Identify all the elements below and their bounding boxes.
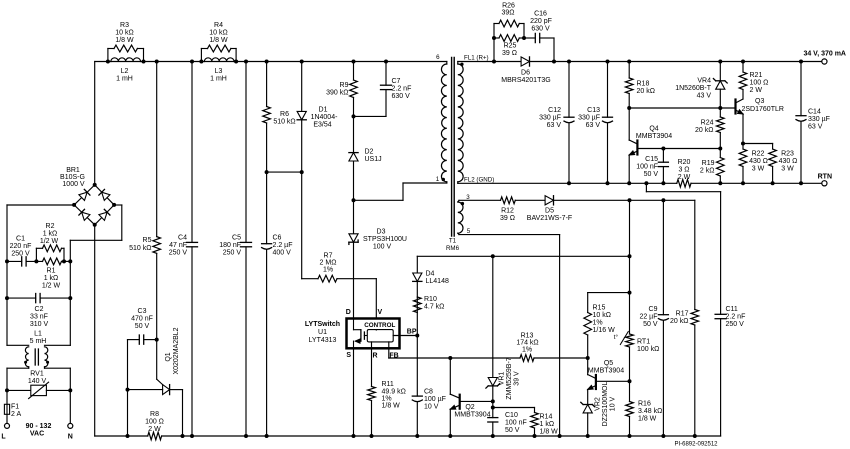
svg-text:100 nF: 100 nF [505,420,527,427]
svg-text:LYTSwitch: LYTSwitch [305,321,340,328]
svg-text:RM6: RM6 [446,245,460,252]
svg-text:R5: R5 [143,237,152,244]
svg-text:C16: C16 [534,11,547,18]
svg-text:D4: D4 [426,271,435,278]
svg-text:DZ2S100MOL: DZ2S100MOL [602,382,609,427]
svg-text:C8: C8 [424,389,433,396]
svg-text:1/8 W: 1/8 W [115,37,134,44]
svg-text:N: N [68,434,73,441]
svg-text:2 MΩ: 2 MΩ [320,260,337,267]
svg-text:RV1: RV1 [30,371,44,378]
svg-text:X0202MA2BL2: X0202MA2BL2 [173,327,180,374]
svg-text:100 kΩ: 100 kΩ [637,346,659,353]
svg-text:3: 3 [466,194,470,201]
svg-text:1/8 W: 1/8 W [209,37,228,44]
svg-text:2.2 nF: 2.2 nF [726,314,746,321]
svg-text:R7: R7 [324,253,333,260]
svg-text:RT1: RT1 [637,339,650,346]
svg-text:220 pF: 220 pF [530,18,552,25]
svg-text:310 V: 310 V [30,321,49,328]
svg-text:C1: C1 [16,236,25,243]
svg-text:R1: R1 [47,268,56,275]
svg-text:20 kΩ: 20 kΩ [637,88,655,95]
svg-text:220 nF: 220 nF [10,243,32,250]
svg-text:400 V: 400 V [273,250,292,257]
svg-text:D6: D6 [521,70,530,77]
svg-text:100 Ω: 100 Ω [145,419,164,426]
svg-text:49.9 kΩ: 49.9 kΩ [382,389,406,396]
svg-text:C13: C13 [587,107,600,114]
svg-text:2 W: 2 W [750,87,763,94]
svg-text:VAC: VAC [30,431,44,438]
svg-text:R26: R26 [502,3,515,10]
svg-text:1 mH: 1 mH [116,76,133,83]
svg-text:510 kΩ: 510 kΩ [129,245,151,252]
svg-text:D2: D2 [365,149,374,156]
svg-text:Q5: Q5 [604,360,613,367]
svg-text:63 V: 63 V [808,124,823,131]
svg-text:2 W: 2 W [678,174,691,181]
svg-text:20 kΩ: 20 kΩ [695,127,713,134]
svg-text:R21: R21 [750,72,763,79]
svg-text:R8: R8 [150,411,159,418]
svg-text:S: S [346,352,351,359]
svg-text:F1: F1 [11,404,19,411]
svg-text:1/16 W: 1/16 W [593,327,616,334]
svg-text:R17: R17 [676,311,689,318]
svg-text:BP: BP [407,329,417,336]
svg-text:R: R [372,353,377,360]
svg-text:R12: R12 [501,208,514,215]
svg-text:RTN: RTN [818,174,832,181]
svg-text:Q1: Q1 [165,352,172,361]
svg-text:C10: C10 [505,412,518,419]
svg-text:L2: L2 [121,68,129,75]
svg-text:1N4004-: 1N4004- [311,114,339,121]
svg-text:1 kΩ: 1 kΩ [540,421,555,428]
svg-text:50 V: 50 V [644,171,659,178]
svg-text:2.2 nF: 2.2 nF [392,86,412,93]
svg-text:R18: R18 [637,81,650,88]
svg-text:1 kΩ: 1 kΩ [44,275,59,282]
svg-text:T1: T1 [449,238,457,245]
svg-text:630 V: 630 V [392,93,411,100]
svg-text:10 kΩ: 10 kΩ [209,30,227,37]
svg-text:1/8 W: 1/8 W [382,403,401,410]
svg-text:2 A: 2 A [11,411,21,418]
svg-text:VR1: VR1 [499,372,506,386]
svg-text:C9: C9 [649,306,658,313]
svg-text:D5: D5 [545,208,554,215]
svg-text:L1: L1 [34,331,42,338]
svg-text:US1J: US1J [365,156,382,163]
svg-text:1000 V: 1000 V [62,181,85,188]
svg-text:1%: 1% [522,347,532,354]
svg-text:MMBT3904: MMBT3904 [454,412,490,419]
svg-text:33 nF: 33 nF [30,314,48,321]
svg-text:250 V: 250 V [11,251,30,258]
svg-text:2 kΩ: 2 kΩ [700,168,715,175]
svg-text:C15: C15 [645,156,658,163]
svg-text:3 W: 3 W [781,166,794,173]
svg-text:3 Ω: 3 Ω [678,167,689,174]
svg-text:R9: R9 [340,82,349,89]
svg-text:C11: C11 [726,306,738,313]
svg-text:20 kΩ: 20 kΩ [670,318,688,325]
svg-text:5 mH: 5 mH [30,338,47,345]
svg-text:BR1: BR1 [66,167,80,174]
svg-text:39 V: 39 V [514,371,521,386]
svg-text:63 V: 63 V [586,122,601,129]
svg-text:430 Ω: 430 Ω [779,158,798,165]
svg-text:Q3: Q3 [755,98,764,105]
svg-text:ZMM5259B-7: ZMM5259B-7 [506,357,513,400]
svg-text:10 kΩ: 10 kΩ [115,30,133,37]
svg-text:330 µF: 330 µF [808,116,830,123]
svg-text:90 - 132: 90 - 132 [26,423,52,430]
svg-text:47 nF: 47 nF [169,242,187,249]
svg-text:250 V: 250 V [223,250,242,257]
svg-text:FL2 (GND): FL2 (GND) [464,177,494,184]
svg-text:D3: D3 [377,229,386,236]
svg-text:R19: R19 [702,160,715,167]
svg-text:L: L [1,434,6,441]
svg-text:510 kΩ: 510 kΩ [273,119,295,126]
svg-text:PI-6892-092512: PI-6892-092512 [674,442,718,448]
svg-text:1 mH: 1 mH [210,76,227,83]
svg-text:Q4: Q4 [649,126,658,133]
svg-text:C4: C4 [178,235,187,242]
svg-text:100 V: 100 V [373,244,392,251]
svg-text:B10S-G: B10S-G [60,174,85,181]
svg-text:180 nF: 180 nF [219,242,241,249]
svg-text:R3: R3 [120,22,129,29]
svg-text:100 nF: 100 nF [636,164,658,171]
svg-text:330 µF: 330 µF [539,115,561,122]
svg-text:1/2 W: 1/2 W [40,238,59,245]
svg-text:1/2 W: 1/2 W [42,283,61,290]
svg-text:CONTROL: CONTROL [364,322,395,329]
svg-text:VR4: VR4 [697,78,711,85]
svg-text:4.7 kΩ: 4.7 kΩ [424,304,444,311]
svg-text:C3: C3 [138,308,147,315]
svg-text:C14: C14 [808,109,821,116]
svg-text:39 Ω: 39 Ω [500,215,515,222]
svg-text:43 V: 43 V [697,93,712,100]
svg-text:R6: R6 [280,111,289,118]
svg-text:STPS3H100U: STPS3H100U [363,236,407,243]
svg-text:1: 1 [436,176,440,183]
svg-text:D1: D1 [319,107,328,114]
svg-text:R2: R2 [46,223,55,230]
svg-text:1/8 W: 1/8 W [638,416,657,423]
svg-text:MMBT3904: MMBT3904 [636,133,672,140]
svg-text:390 kΩ: 390 kΩ [326,90,348,97]
svg-text:22 µF: 22 µF [639,314,657,321]
svg-text:L3: L3 [215,68,223,75]
svg-text:63 V: 63 V [547,122,562,129]
svg-text:50 V: 50 V [643,321,658,328]
svg-text:630 V: 630 V [531,26,550,33]
svg-text:6: 6 [436,54,440,61]
svg-text:1%: 1% [382,396,392,403]
svg-text:D: D [346,309,351,316]
svg-text:50 V: 50 V [505,427,520,434]
svg-text:1N5260B-T: 1N5260B-T [675,85,712,92]
svg-text:140 V: 140 V [28,378,47,385]
svg-text:C5: C5 [232,235,241,242]
svg-text:470 nF: 470 nF [131,316,153,323]
svg-text:MBRS4201T3G: MBRS4201T3G [501,77,550,84]
svg-text:R16: R16 [638,401,651,408]
svg-text:50 V: 50 V [135,323,150,330]
svg-text:39Ω: 39Ω [501,10,514,17]
svg-text:R23: R23 [781,151,794,158]
svg-text:R11: R11 [382,381,394,388]
svg-text:100 µF: 100 µF [424,396,446,403]
svg-text:BAV21WS-7-F: BAV21WS-7-F [527,215,572,222]
svg-text:R22: R22 [752,151,765,158]
svg-text:1%: 1% [323,267,333,274]
svg-text:250 V: 250 V [726,321,745,328]
svg-text:330 µF: 330 µF [578,115,600,122]
svg-text:R24: R24 [701,120,714,127]
svg-text:C6: C6 [273,235,282,242]
svg-text:3.48 kΩ: 3.48 kΩ [638,408,662,415]
svg-text:FL1 (R+): FL1 (R+) [464,55,489,62]
svg-text:1 kΩ: 1 kΩ [43,231,58,238]
svg-text:R14: R14 [540,414,553,421]
svg-text:430 Ω: 430 Ω [749,158,768,165]
svg-text:LYT4313: LYT4313 [309,337,337,344]
svg-text:10 V: 10 V [424,404,439,411]
svg-text:C7: C7 [392,78,401,85]
svg-text:2SD1760TLR: 2SD1760TLR [742,106,784,113]
svg-text:10 V: 10 V [610,396,617,411]
svg-text:1/8 W: 1/8 W [540,429,559,436]
svg-text:VR2: VR2 [595,397,602,411]
svg-text:C2: C2 [35,306,44,313]
svg-text:MMBT3904: MMBT3904 [588,368,624,375]
svg-text:34 V, 370 mA: 34 V, 370 mA [803,51,846,58]
svg-text:2 W: 2 W [148,426,161,433]
svg-text:3 W: 3 W [752,166,765,173]
svg-text:2.2 µF: 2.2 µF [273,242,293,249]
svg-text:5: 5 [467,228,471,235]
svg-text:Q2: Q2 [465,404,474,411]
svg-text:FB: FB [389,353,398,360]
svg-text:10 kΩ: 10 kΩ [593,312,611,319]
svg-text:R20: R20 [678,159,691,166]
svg-text:V: V [377,309,382,316]
svg-text:1%: 1% [593,320,603,327]
svg-text:LL4148: LL4148 [426,278,449,285]
svg-text:R25: R25 [504,43,517,50]
svg-text:250 V: 250 V [169,250,188,257]
svg-text:R4: R4 [214,22,223,29]
svg-text:R15: R15 [593,305,606,312]
svg-text:E3/54: E3/54 [313,122,331,129]
svg-text:39 Ω: 39 Ω [502,50,517,57]
svg-text:C12: C12 [548,107,561,114]
svg-text:t°: t° [614,334,619,341]
svg-text:U1: U1 [318,329,327,336]
svg-text:R13: R13 [521,333,534,340]
svg-text:174 kΩ: 174 kΩ [516,340,538,347]
svg-text:R10: R10 [424,296,437,303]
svg-text:100 Ω: 100 Ω [750,80,769,87]
